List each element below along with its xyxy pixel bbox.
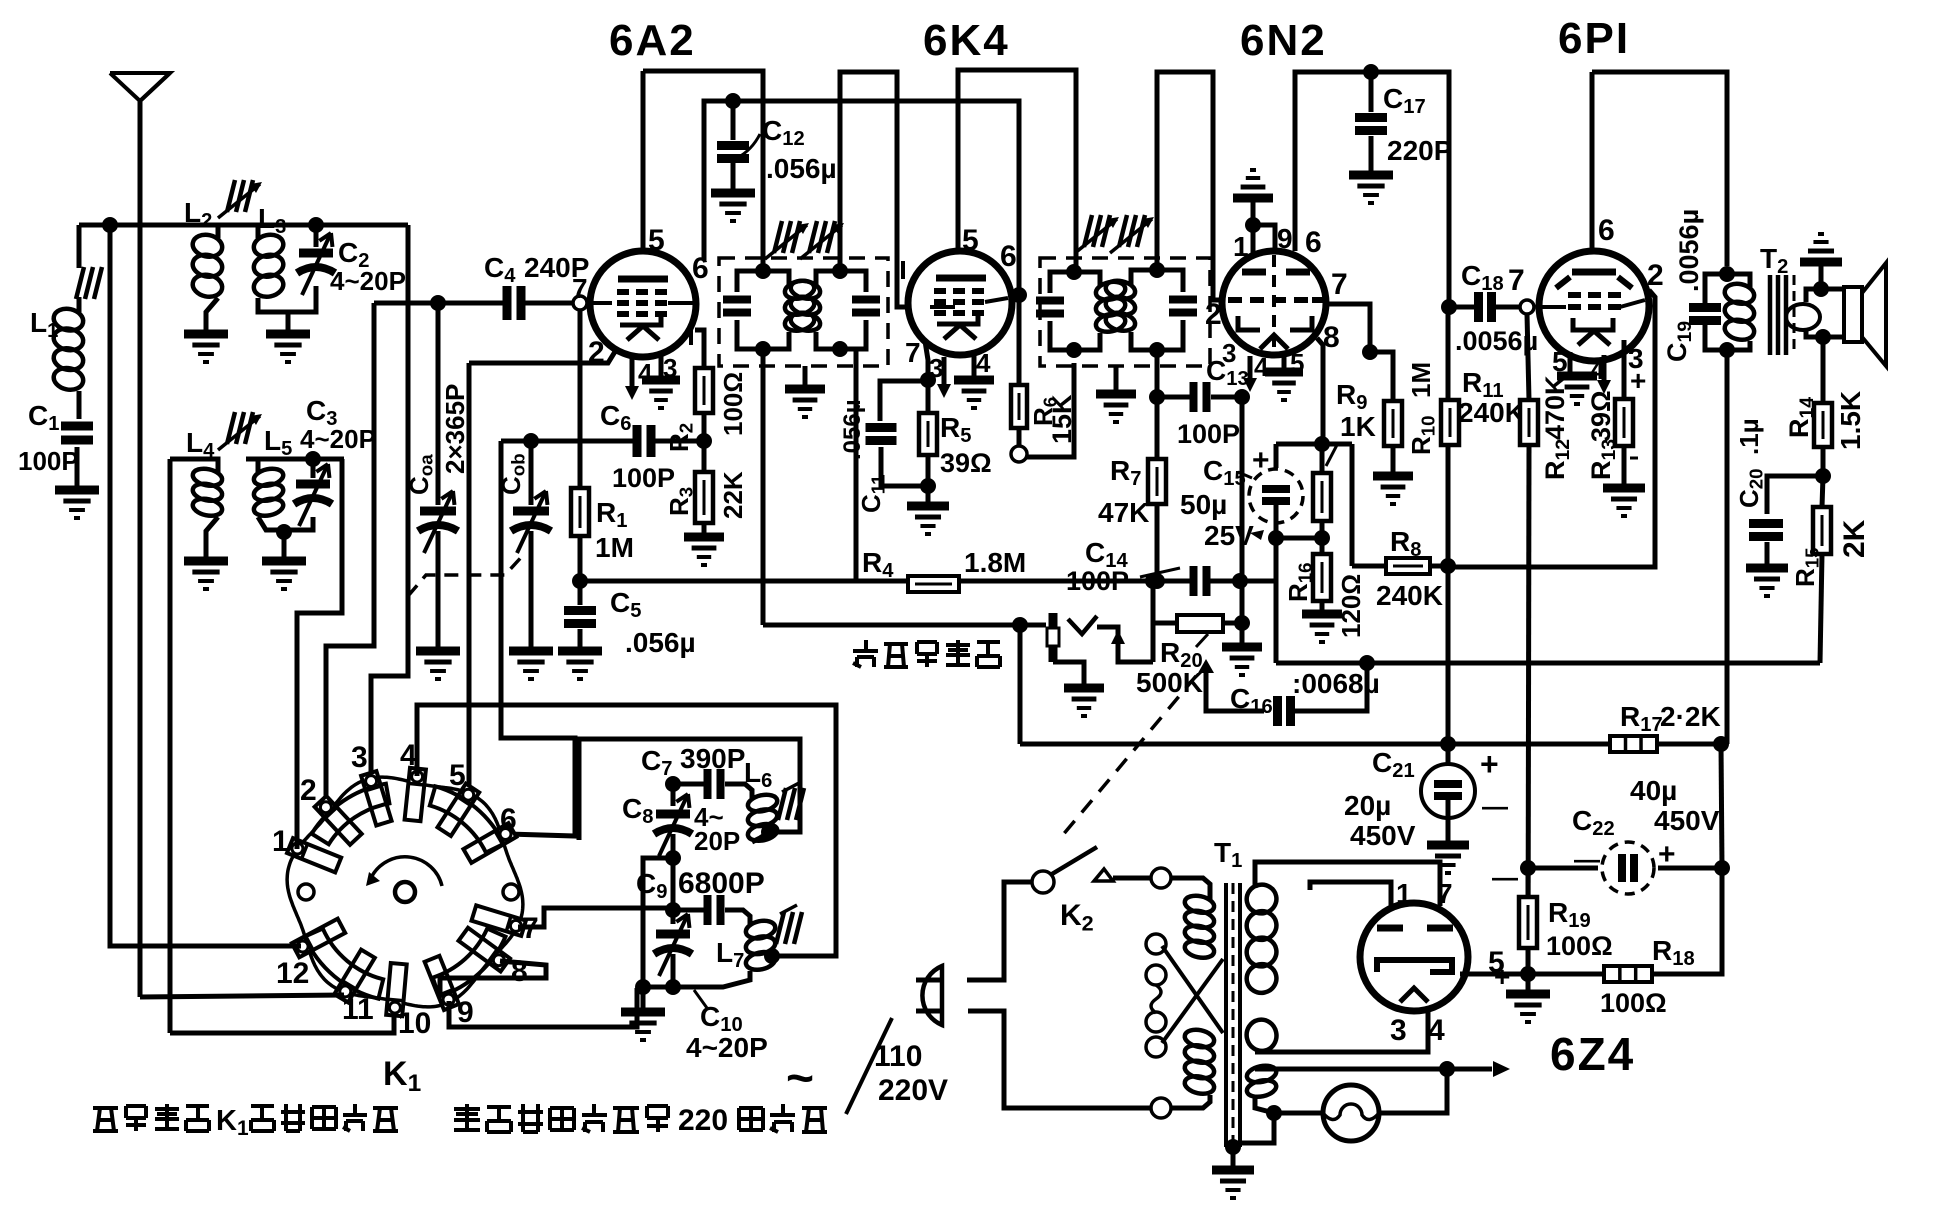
junction C21 tap <box>1440 736 1456 752</box>
label C15 plus <box>1252 444 1270 477</box>
capacitor C9 <box>708 895 721 925</box>
capacitor C5 <box>564 581 596 624</box>
ground L3 <box>266 334 310 362</box>
ground L7 cell <box>621 1012 665 1040</box>
coil L5 <box>246 459 285 518</box>
label R8 value <box>1376 580 1443 611</box>
junction 6K4 screen <box>1011 287 1027 303</box>
arrow heater out <box>1447 1061 1510 1077</box>
junction C14 left <box>1145 573 1161 589</box>
wire plug bottom <box>968 1011 1151 1108</box>
label R18 <box>1652 935 1695 970</box>
label R19 value <box>1546 931 1613 961</box>
label L1 <box>30 307 58 342</box>
ground L2 <box>184 334 228 362</box>
ground R16 <box>1302 614 1342 642</box>
label 6P1 <box>1558 14 1630 63</box>
junction lamp right <box>1439 1061 1455 1077</box>
K1 rotor sector lower-right <box>433 929 506 997</box>
svg-text:6N2: 6N2 <box>1240 16 1327 65</box>
K1 contact 3 <box>351 741 392 826</box>
selector cross wires <box>1162 946 1223 1043</box>
label C1 value <box>18 446 79 476</box>
coil L3 <box>252 225 286 299</box>
wire feedback bus y=664 <box>1276 661 1820 666</box>
junction C22 right <box>1714 860 1730 876</box>
label 6A2 <box>609 16 696 65</box>
wire C5 gnd <box>578 629 583 647</box>
wire R17-C22 riser <box>1721 744 1722 868</box>
ground IFT2 <box>1096 366 1136 422</box>
svg-text:+: + <box>1658 838 1676 871</box>
junction IFT1 pri top <box>755 263 771 279</box>
resistor R16 <box>1313 538 1331 601</box>
label 6N2 pin7 <box>1331 268 1348 301</box>
wire R16 box <box>1274 538 1279 663</box>
wire 6K4 plate bus <box>958 70 1076 266</box>
svg-text:25V: 25V <box>1204 520 1254 551</box>
wire 6A2 screen bus <box>704 101 1019 385</box>
transformer T1 primary lower <box>1183 1027 1216 1096</box>
label R14 <box>1784 397 1818 438</box>
junction lamp left <box>1266 1105 1282 1121</box>
wire K10 contact <box>170 1012 394 1033</box>
wire jack bus to B+ rail <box>1018 625 1023 744</box>
label 6K4 pin6 <box>1000 240 1017 273</box>
svg-text:1M: 1M <box>1406 362 1436 398</box>
wire 6A2 plate bus <box>643 71 763 266</box>
label C1 <box>28 400 59 435</box>
junction C22 left <box>1520 860 1536 876</box>
resistor R4 <box>908 576 959 592</box>
label 6Z4 pin3 <box>1390 1014 1407 1047</box>
label 110 <box>874 1040 922 1073</box>
label T2 <box>1760 243 1788 278</box>
label R17 <box>1620 701 1721 736</box>
tube 6A2 envelope <box>590 251 696 357</box>
label 6N2 pin4 <box>1254 352 1269 382</box>
label R13 <box>1586 390 1620 480</box>
wire L1-C1 <box>77 391 82 419</box>
label R9 <box>1326 379 1376 466</box>
wire heater-lamp top <box>1255 1067 1447 1072</box>
junction C15 bottom <box>1268 530 1284 546</box>
dashed link R20-K2 <box>1062 676 1196 836</box>
svg-text:—: — <box>1482 791 1508 821</box>
wire lamp left leg <box>1274 1111 1323 1116</box>
label C4 <box>484 252 516 287</box>
capacitor C11 <box>866 428 897 441</box>
label T1 <box>1214 837 1242 872</box>
junction C13 right <box>1234 389 1250 405</box>
svg-text:+: + <box>1252 444 1270 477</box>
label R8 <box>1390 526 1421 561</box>
label 6Z4 pin4 <box>1428 1014 1445 1047</box>
ground Cob <box>509 651 553 679</box>
svg-text:40µ: 40µ <box>1630 775 1677 806</box>
junction IFT2 sec bottom <box>1149 342 1165 358</box>
label C13 value <box>1177 419 1240 449</box>
IF transformer IFT2 box <box>1040 258 1210 366</box>
voltage selector taps <box>1146 934 1166 1057</box>
label R6 value <box>1047 394 1077 444</box>
wire K10 riser <box>170 459 206 1033</box>
K1 contact 10 <box>386 963 431 1040</box>
wire heater bottom <box>1233 1098 1274 1143</box>
wire 6K4 screen link <box>1011 293 1019 298</box>
voltage slash <box>846 1018 892 1114</box>
K1 contact 9 <box>425 956 474 1029</box>
wire K6 inner box <box>579 739 800 840</box>
resistor R13 <box>1615 340 1633 446</box>
resistor R3 <box>695 441 713 523</box>
svg-text:390P: 390P <box>680 743 745 774</box>
wire 6Z4 cathode out <box>1460 972 1528 977</box>
label C21 <box>1372 747 1415 782</box>
capacitor C21 electrolytic <box>1421 744 1475 841</box>
wire L6 bottom <box>752 832 769 842</box>
tube 6K4 internals <box>930 278 1008 339</box>
label C5 value <box>625 627 696 658</box>
ground up 6N2 g <box>1233 170 1273 225</box>
wire main line y=303 <box>374 301 580 306</box>
svg-text:220V: 220V <box>878 1074 948 1107</box>
svg-text:100P: 100P <box>1177 419 1240 449</box>
svg-text:6K4: 6K4 <box>923 16 1010 65</box>
label C21 value <box>1344 790 1416 851</box>
ground R5 <box>907 506 949 534</box>
wire jack tip line <box>1020 623 1046 628</box>
svg-text:3: 3 <box>1390 1014 1407 1047</box>
wire 6N2 pin7 out <box>1327 304 1370 352</box>
label Coa <box>404 454 437 495</box>
wire 6Z4 plate2 <box>1310 882 1391 906</box>
label C21 plus <box>1480 746 1499 782</box>
label R3 value <box>718 471 748 519</box>
junction C18 left <box>1441 299 1457 315</box>
svg-text:39Ω: 39Ω <box>1586 390 1616 442</box>
wire R8-6P1 grid line <box>1448 290 1655 567</box>
resistor R10 <box>1370 352 1402 446</box>
label 6P1 pin4 <box>1590 355 1605 385</box>
svg-text:100P: 100P <box>1066 566 1129 596</box>
label K2 <box>1060 899 1094 935</box>
label 6A2 pin3 <box>663 353 677 383</box>
label R6 <box>1028 397 1061 426</box>
tube 6N2 envelope <box>1222 251 1326 355</box>
svg-text:+: + <box>1630 365 1646 396</box>
junction IFT2 pri top <box>1066 264 1082 280</box>
label 6K4 pin3 <box>929 353 943 383</box>
label R2 <box>664 423 697 452</box>
junction R9 bottom <box>1314 530 1330 546</box>
label R7 <box>1110 455 1141 490</box>
label C22 minus <box>1574 844 1600 874</box>
label 6A2 pin5 <box>648 224 665 257</box>
junction C10 bottom <box>665 979 681 995</box>
label C11 value <box>839 399 866 460</box>
label C8 value <box>694 802 740 856</box>
label 6N2 <box>1240 16 1327 65</box>
junction T2 pri bottom <box>1719 342 1735 358</box>
svg-text:—: — <box>1492 862 1518 892</box>
svg-text:6PI: 6PI <box>1558 14 1630 63</box>
svg-text::0068µ: :0068µ <box>1292 668 1380 699</box>
K1 rotation arrow <box>366 857 442 886</box>
trimmer C3 <box>246 459 344 526</box>
svg-text:470K: 470K <box>1540 375 1570 440</box>
svg-text:4~20P: 4~20P <box>330 266 406 296</box>
junction 6N2 pin1 node <box>1245 217 1261 233</box>
core arrow L2L3 <box>218 180 262 218</box>
ground pot <box>1222 623 1262 675</box>
label 6P1 pin5 <box>1552 346 1568 377</box>
junction IFT1 sec bottom <box>832 341 848 357</box>
label C10 <box>694 990 743 1036</box>
wire R8 left riser <box>1350 444 1355 566</box>
svg-text:7: 7 <box>1508 264 1525 297</box>
junction bus-R1C5 <box>572 573 588 589</box>
junction C14 right <box>1232 573 1248 589</box>
tube 6P1 envelope <box>1539 251 1649 361</box>
label C15 value <box>1180 489 1254 551</box>
label 6K4 pin7 <box>905 337 921 368</box>
wire B+ rail <box>1020 742 1721 747</box>
wire C15-R16 link <box>1276 536 1322 541</box>
junction IFT2 pri bottom <box>1066 342 1082 358</box>
junction C12 tap <box>725 93 741 109</box>
ground 6K4 pin4 <box>954 380 994 408</box>
wire C9 line <box>673 910 750 924</box>
label 6K4 <box>923 16 1010 65</box>
transformer T1 core <box>1226 883 1240 1147</box>
junction L5C3 top <box>305 451 321 467</box>
terminal R6 bottom <box>1011 428 1027 462</box>
label AC tilde <box>786 1052 814 1105</box>
wire 6P1 pin6 plate <box>1590 72 1595 253</box>
wire K5 riser <box>467 363 472 793</box>
svg-text:2K: 2K <box>1838 519 1871 558</box>
label 6P1 pin3 <box>1628 343 1644 374</box>
label C22 <box>1572 805 1615 840</box>
jack tip contact <box>1068 616 1153 662</box>
svg-text:100Ω: 100Ω <box>1600 988 1667 1018</box>
label pickup jack text <box>853 640 1000 667</box>
wire R16 gnd <box>1320 601 1325 610</box>
wire AVC bus <box>580 579 1274 584</box>
wire 6P1 plate bus <box>1592 72 1727 266</box>
ground C12 <box>711 193 755 221</box>
K1 contact 1 <box>272 825 341 872</box>
label R1 <box>596 497 627 532</box>
label 6Z4 pin1 <box>1396 878 1412 909</box>
core arrow L4L5 <box>218 412 262 450</box>
svg-text:220: 220 <box>678 1104 728 1137</box>
label C3 <box>306 395 337 430</box>
label R18 value <box>1600 988 1667 1018</box>
label 6Z4 <box>1550 1028 1635 1080</box>
svg-text:6Z4: 6Z4 <box>1550 1028 1635 1080</box>
coil L2 <box>191 225 225 299</box>
trimmer C10 <box>654 858 692 987</box>
label R11 <box>1462 367 1504 402</box>
svg-text:6: 6 <box>1305 226 1322 259</box>
svg-text:.1µ: .1µ <box>1734 418 1764 455</box>
label C11 <box>856 474 889 513</box>
label 6K4 pin4 <box>976 348 991 378</box>
svg-text:240K: 240K <box>1458 397 1525 428</box>
wire K6 riser <box>501 441 575 836</box>
svg-text:3: 3 <box>351 741 368 774</box>
wire L3C2 bottom <box>258 286 316 330</box>
ground C5 <box>558 651 602 679</box>
capacitor C19 <box>1689 308 1721 321</box>
ground 6P1 k <box>1557 376 1597 404</box>
ground R3 <box>684 537 724 565</box>
pickup jack <box>1047 613 1104 716</box>
svg-text:50µ: 50µ <box>1180 489 1227 520</box>
IFT2 primary cell <box>1036 272 1127 350</box>
junction C8 bottom <box>665 850 681 866</box>
svg-text:47K: 47K <box>1098 497 1149 528</box>
label R4 <box>862 547 894 582</box>
junction C4 node <box>430 295 446 311</box>
ground C1 <box>55 490 99 518</box>
wire K12 contact <box>110 225 301 946</box>
label R16 <box>1283 562 1316 602</box>
wire C19 leg <box>1705 274 1727 350</box>
ground 6A2 cathode <box>642 380 680 408</box>
label R20 value <box>1136 667 1203 698</box>
variable capacitor Coa <box>418 491 458 647</box>
svg-text:1.8M: 1.8M <box>964 547 1026 578</box>
label C22 plus <box>1658 838 1676 871</box>
wire C1-gnd <box>75 447 80 486</box>
speaker <box>1821 263 1886 366</box>
svg-text:100Ω: 100Ω <box>718 372 748 436</box>
resistor R17 <box>1574 736 1721 752</box>
resistor R14 <box>1814 337 1832 476</box>
core arrow L6 <box>778 783 804 820</box>
svg-text:1: 1 <box>272 825 289 858</box>
label R15 <box>1790 547 1823 587</box>
wire L4-gnd <box>206 517 218 557</box>
resistor R12 <box>1520 314 1538 974</box>
svg-text:4: 4 <box>1428 1014 1445 1047</box>
label 6P1 pin6 <box>1598 214 1615 247</box>
junction C13 node <box>1149 389 1165 405</box>
svg-text:7: 7 <box>1437 878 1453 909</box>
wire L2-gnd <box>206 298 218 330</box>
label C4 value <box>524 252 589 283</box>
ground R19 <box>1506 994 1550 1022</box>
label R3 <box>664 487 697 516</box>
K1 contact 6 <box>463 803 516 863</box>
wire jack bus <box>763 623 1020 628</box>
svg-text:10: 10 <box>398 1007 431 1040</box>
label 6Z4 pin7 <box>1437 878 1453 909</box>
transformer T2 primary <box>1723 274 1756 350</box>
wire L7 cell bottom <box>643 985 673 990</box>
wire C13-pot <box>1240 397 1245 643</box>
junction IFT1 pri bottom <box>755 341 771 357</box>
rotary switch K1 wafer <box>287 777 523 1007</box>
wire R5 gnd <box>926 486 931 502</box>
label Coa value <box>440 384 470 474</box>
label C13 <box>1206 355 1249 390</box>
label C22 value <box>1630 775 1720 836</box>
wire T2 down riser <box>1725 350 1730 744</box>
label C19 <box>1662 321 1696 362</box>
label 220V <box>878 1074 948 1107</box>
transformer T2 secondary <box>1786 289 1821 337</box>
label R14 value <box>1835 391 1866 450</box>
label R4 value <box>964 547 1026 578</box>
terminal 6A2 pin7 <box>573 296 587 310</box>
wire 6K4 pin4 gnd <box>972 350 977 376</box>
wire C12 gnd lead <box>731 163 736 189</box>
svg-text:~: ~ <box>786 1052 814 1105</box>
wire 6A2 pin5 plate lead <box>641 71 646 252</box>
wire C11 branch <box>880 381 928 421</box>
junction T2 pri top <box>1719 266 1735 282</box>
capacitor C17 <box>1355 72 1387 131</box>
caption band switch <box>93 1104 398 1140</box>
wire IFT2 sec bottom <box>1155 350 1160 459</box>
junction R5 bottom <box>920 478 936 494</box>
switch K2 <box>1032 847 1097 893</box>
svg-text:100P: 100P <box>612 463 675 493</box>
wire R9 node line <box>1276 442 1352 447</box>
wire T1 pri bottom <box>1171 1095 1210 1108</box>
caption power socket <box>454 1104 827 1137</box>
junction T1 core gnd <box>1225 1139 1241 1166</box>
K1 contact 12 <box>276 919 345 990</box>
trimmer C2 <box>297 225 335 295</box>
ground C20 <box>1746 568 1788 596</box>
label C6 <box>600 400 631 435</box>
wire 6N2 grid1 ground <box>1253 225 1275 272</box>
label R16 value <box>1336 574 1366 638</box>
K1 contact 7 <box>472 905 539 945</box>
capacitor C14 <box>1153 566 1240 596</box>
label 6N2 pin6 <box>1305 226 1322 259</box>
svg-text:.056µ: .056µ <box>839 399 866 460</box>
svg-text:5: 5 <box>449 759 466 792</box>
svg-text:1: 1 <box>1396 878 1412 909</box>
wire K7 contact <box>518 908 673 927</box>
junction IFT1 sec top <box>832 263 848 279</box>
label 6N2 pin5 <box>1290 348 1304 378</box>
core arrows IFT1 <box>765 221 844 259</box>
ground Coa <box>416 651 460 679</box>
svg-text:2: 2 <box>1647 259 1664 292</box>
svg-text:240K: 240K <box>1376 580 1443 611</box>
coil L4 <box>191 459 223 518</box>
dashed gang link <box>408 552 526 596</box>
ground L5 <box>262 561 306 589</box>
label C17 value <box>1387 135 1452 166</box>
svg-text:4: 4 <box>976 348 991 378</box>
resistor R2 <box>695 330 713 441</box>
label 6N2 pin9 <box>1277 223 1293 254</box>
ground C17 <box>1349 175 1393 203</box>
wire 6A2 pin3 gnd <box>659 355 664 376</box>
junction L6 bottom <box>761 824 777 840</box>
wire R6-IFT2 <box>1027 363 1074 457</box>
svg-text:6A2: 6A2 <box>609 16 696 65</box>
tube 6A2 internals <box>588 279 693 340</box>
